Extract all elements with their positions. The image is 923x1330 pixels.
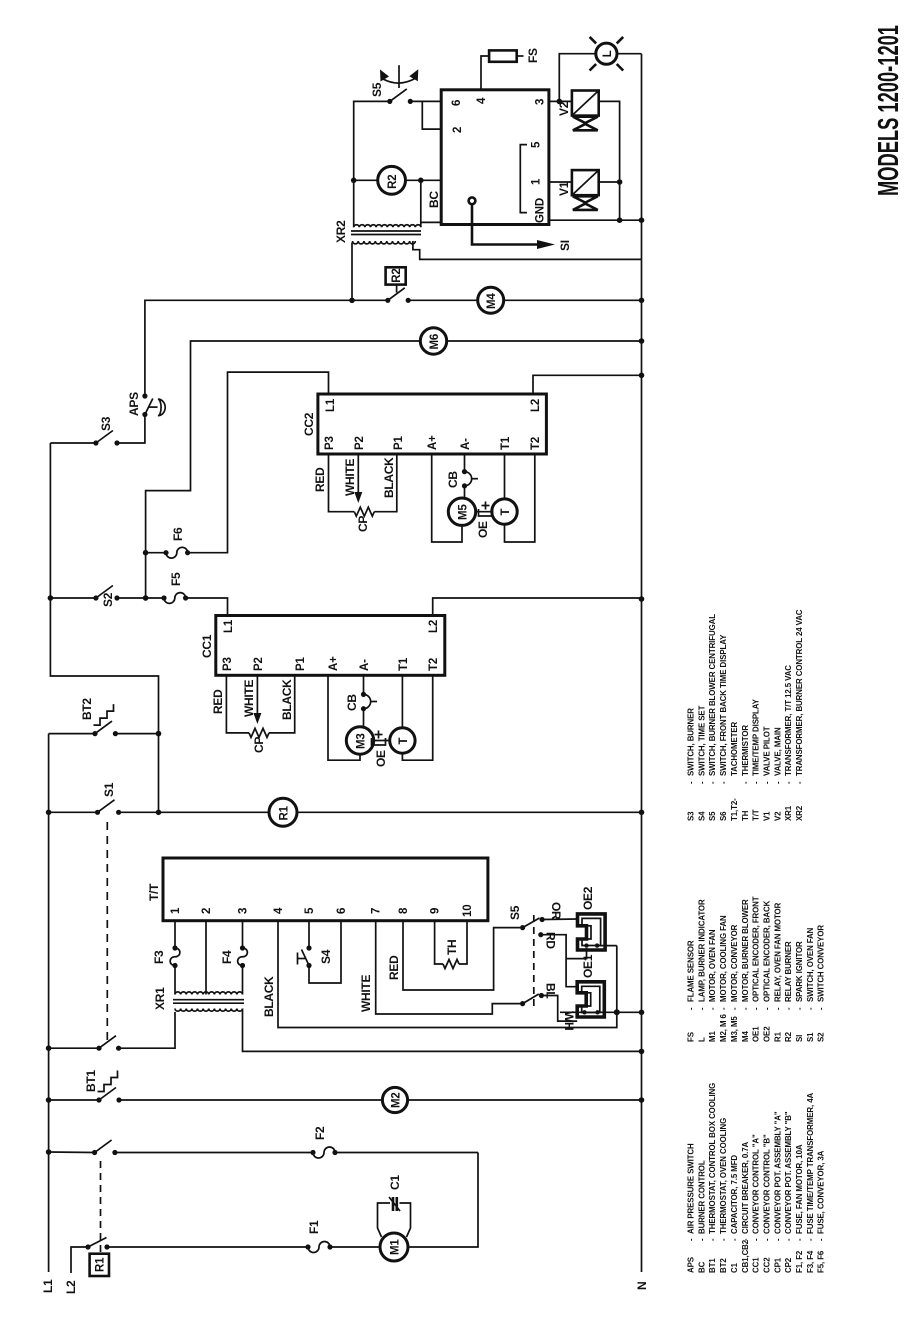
svg-text:R1: R1 — [95, 1257, 107, 1272]
svg-text:T1,T2-TACHOMETER: T1,T2-TACHOMETER — [730, 722, 739, 821]
svg-text:CC2: CC2 — [302, 412, 316, 436]
svg-text:WHITE: WHITE — [343, 459, 357, 496]
svg-text:WH: WH — [562, 1011, 576, 1030]
burner control BC box — [441, 90, 549, 225]
wire OR to OE2 — [542, 918, 577, 921]
svg-text:F6: F6 — [171, 527, 185, 541]
switch S1b (gang pole of S1) rung from L1 — [46, 1045, 52, 1051]
wire pot to P1 BLACK — [374, 454, 397, 512]
potentiometer CP2 — [354, 507, 374, 516]
wire F2 down to M1 loop — [335, 1152, 478, 1154]
fuse F2 — [310, 1150, 315, 1155]
fuse F5 — [161, 595, 166, 600]
wire F2 rung from L1 — [46, 1149, 52, 1155]
svg-text:CP2-CONVEYOR POT. ASSEMBLY "B": CP2-CONVEYOR POT. ASSEMBLY "B" — [784, 1111, 793, 1273]
shaft M3 to T — [374, 740, 390, 742]
svg-text:SI: SI — [558, 240, 572, 251]
fuse F1 — [305, 1244, 310, 1249]
wire pin3 out — [549, 100, 572, 102]
svg-text:T2: T2 — [428, 658, 440, 671]
wire XR2 secondary feed — [351, 243, 353, 301]
svg-text:RED: RED — [387, 955, 401, 980]
relay coil R2 — [354, 179, 378, 181]
wire XR2 primary top to S5 — [354, 101, 390, 227]
thermostat BT2 rung — [49, 733, 95, 735]
svg-text:WHITE: WHITE — [242, 680, 256, 717]
wire T1 to T — [504, 454, 506, 499]
svg-text:SI-SPARK IGNITOR: SI-SPARK IGNITOR — [795, 941, 804, 1042]
wire spark ignitor SI — [472, 204, 540, 244]
wire F1 to M1 — [330, 1246, 380, 1248]
circuit breaker CB1 — [363, 675, 365, 694]
wire V2 to common — [599, 101, 620, 182]
svg-text:CC2-CONVEYOR CONTROL "B": CC2-CONVEYOR CONTROL "B" — [763, 1134, 772, 1273]
wire N bus — [641, 54, 643, 1272]
svg-text:CB: CB — [345, 694, 359, 711]
svg-text:V2-VALVE, MAIN: V2-VALVE, MAIN — [773, 727, 782, 821]
svg-text:GND: GND — [535, 198, 547, 223]
wire pin1 to F3 — [174, 921, 176, 948]
shaft M5 to T — [476, 511, 492, 513]
svg-text:F5, F6-FUSE, CONVEYOR, 3A: F5, F6-FUSE, CONVEYOR, 3A — [817, 1150, 826, 1273]
svg-text:APS: APS — [127, 392, 141, 416]
svg-text:L2: L2 — [428, 620, 440, 633]
svg-text:7: 7 — [371, 908, 383, 914]
relay contact R1 pole2 — [92, 1150, 97, 1155]
ground electrode circle — [469, 197, 476, 204]
wire pin2 to XR1 tap — [205, 921, 207, 995]
motor M3 — [346, 727, 373, 754]
svg-text:OE2: OE2 — [581, 886, 595, 910]
wire BL to OE1 top left — [541, 996, 577, 1022]
wire pin4 BLACK — [278, 921, 617, 1028]
svg-text:V1: V1 — [557, 181, 571, 196]
svg-text:T2: T2 — [530, 437, 542, 450]
wire pin8 RED — [403, 921, 520, 990]
wire M1 to corner — [408, 1153, 478, 1248]
wire S1b to XR1 secondary top — [119, 1012, 175, 1048]
svg-text:S2-SWITCH CONVEYOR: S2-SWITCH CONVEYOR — [817, 925, 826, 1042]
wire lamp branch — [559, 54, 596, 102]
svg-text:BLACK: BLACK — [280, 679, 294, 720]
wire V1 to common — [599, 181, 620, 183]
wire R2 contact to M4 — [408, 299, 478, 301]
svg-text:F4: F4 — [220, 950, 234, 964]
motor M2 — [382, 1087, 407, 1112]
circuit breaker CB2 — [464, 454, 466, 472]
svg-text:5: 5 — [531, 141, 543, 148]
svg-text:M4: M4 — [486, 293, 498, 309]
wire OE2 branch to RD run — [566, 948, 586, 959]
wire M6 branch — [146, 341, 421, 553]
svg-text:S1: S1 — [102, 782, 116, 797]
motor M6 — [420, 328, 446, 354]
svg-text:3: 3 — [238, 908, 250, 914]
wire P2 WHITE wiper arrow — [357, 454, 359, 495]
wire R1 coil to N — [297, 811, 642, 813]
wire BC neutral column — [549, 219, 642, 221]
wire P3 RED to pot — [329, 454, 355, 512]
svg-text:M1-MOTOR, OVEN FAN: M1-MOTOR, OVEN FAN — [708, 929, 717, 1042]
wire R2 coil to BC box — [406, 179, 442, 181]
wire APS to M4 rung — [145, 300, 388, 396]
svg-text:F2: F2 — [313, 1126, 327, 1140]
fuse F4 — [240, 945, 245, 950]
motor M4 — [478, 287, 504, 313]
svg-text:FS-FLAME SENSOR: FS-FLAME SENSOR — [687, 940, 696, 1042]
svg-text:BLACK: BLACK — [262, 976, 276, 1017]
svg-text:4: 4 — [273, 907, 285, 914]
wire switched-L1 riser — [50, 443, 158, 812]
svg-text:P1: P1 — [295, 657, 307, 671]
svg-text:M3: M3 — [356, 733, 368, 749]
svg-text:CC1-CONVEYOR CONTROL "A": CC1-CONVEYOR CONTROL "A" — [752, 1134, 761, 1273]
svg-text:L: L — [602, 50, 614, 57]
svg-text:P2: P2 — [253, 657, 265, 671]
wire S5 to BC pins 6 and 2 — [410, 100, 441, 102]
wire F5 to CC1 L1 — [186, 598, 228, 614]
svg-text:BT2: BT2 — [80, 698, 94, 720]
svg-text:F1, F2-FUSE, FAN MOTOR, 10A: F1, F2-FUSE, FAN MOTOR, 10A — [795, 1144, 804, 1273]
relay contact R1 pole1 (in L2) — [85, 1244, 90, 1249]
conveyor control CC1 box — [216, 616, 445, 676]
svg-text:BT1-THERMOSTAT, CONTROL BOX CO: BT1-THERMOSTAT, CONTROL BOX COOLING — [708, 1083, 717, 1273]
wire S2 to F5 junction — [117, 597, 164, 599]
svg-text:BT2-THERMOSTAT, OVEN COOLING: BT2-THERMOSTAT, OVEN COOLING — [719, 1118, 728, 1273]
svg-text:2: 2 — [201, 908, 213, 914]
svg-text:A-: A- — [359, 659, 371, 671]
svg-text:M6: M6 — [429, 334, 441, 350]
svg-text:MODELS 1200-1201: MODELS 1200-1201 — [873, 25, 905, 196]
svg-text:F5: F5 — [169, 572, 183, 586]
svg-text:10: 10 — [462, 905, 474, 917]
wire T2 to T — [402, 675, 432, 760]
svg-text:XR2: XR2 — [334, 220, 348, 243]
relay coil R1 — [269, 798, 297, 826]
svg-text:P3: P3 — [324, 436, 336, 450]
svg-text:A+: A+ — [328, 656, 340, 671]
svg-text:T/T: T/T — [147, 883, 161, 901]
svg-text:M4-MOTOR, BURNER BLOWER: M4-MOTOR, BURNER BLOWER — [741, 899, 750, 1042]
wire R2 dot to XR2 primary bottom — [420, 180, 422, 227]
wire R1 gang dashed link — [100, 1159, 102, 1252]
wire S4 to pin6 — [309, 921, 341, 983]
wire M6 to N — [447, 340, 642, 342]
svg-text:T: T — [500, 509, 512, 516]
svg-text:L1: L1 — [223, 619, 235, 633]
svg-text:TH-THERMISTOR: TH-THERMISTOR — [741, 725, 750, 821]
svg-text:APS-AIR PRESSURE SWITCH: APS-AIR PRESSURE SWITCH — [687, 1143, 696, 1273]
wire T2 to T — [505, 454, 535, 542]
svg-text:T1: T1 — [500, 436, 512, 450]
svg-text:CP: CP — [356, 516, 370, 532]
svg-text:A-: A- — [460, 438, 472, 450]
svg-text:CP1-CONVEYOR POT. ASSEMBLY "A": CP1-CONVEYOR POT. ASSEMBLY "A" — [773, 1111, 782, 1273]
relay R1 box label — [90, 1254, 109, 1276]
svg-text:S5-SWITCH, BURNER BLOWER CENTR: S5-SWITCH, BURNER BLOWER CENTRIFUGAL — [708, 614, 717, 821]
svg-text:F3: F3 — [152, 950, 166, 964]
svg-text:XR2-TRANSFORMER, BURNER CONTRO: XR2-TRANSFORMER, BURNER CONTROL 24 VAC — [795, 609, 804, 821]
wire pin5 to S4 — [308, 921, 310, 948]
svg-text:1: 1 — [170, 907, 182, 914]
thermostat BT1 — [96, 1097, 101, 1102]
optical encoder OE2 — [578, 914, 606, 950]
wire M4 to N — [504, 299, 642, 301]
wire pot to P1 BLACK — [269, 675, 295, 733]
wire pin4 to FS — [481, 56, 489, 90]
svg-text:BC-BURNER CONTROL: BC-BURNER CONTROL — [697, 1160, 706, 1273]
wire CB to M3 — [363, 709, 365, 727]
svg-text:P1: P1 — [393, 436, 405, 450]
wire CB to M5 — [464, 486, 466, 498]
wire OE2 leg down to common — [597, 945, 617, 947]
wire RD from centre contact to OE1 — [541, 935, 577, 987]
switch S1 rung from L1 — [46, 810, 52, 816]
svg-text:R1: R1 — [279, 805, 291, 820]
svg-text:TH: TH — [445, 940, 459, 955]
motor M1 — [380, 1233, 408, 1261]
wire pin1 out — [549, 181, 572, 183]
valve V1 pilot — [572, 170, 599, 195]
svg-text:RED: RED — [211, 689, 225, 714]
thermistor TH loop pins 9-10 — [435, 921, 443, 964]
wire T1 to T — [401, 675, 403, 728]
relay contact R2 — [385, 298, 390, 303]
svg-text:S6-SWITCH, FRONT BACK TIME DI: S6-SWITCH, FRONT BACK TIME DISPLAY — [719, 634, 728, 821]
wire valve common to N column — [619, 182, 621, 220]
tachometer T (CC2) — [492, 499, 517, 524]
svg-text:S4-SWITCH, TIME SET: S4-SWITCH, TIME SET — [697, 705, 706, 821]
svg-text:CB1,CB2-CIRCUIT BREAKER, 0.7A: CB1,CB2-CIRCUIT BREAKER, 0.7A — [741, 1141, 750, 1273]
junction dots on N — [639, 1097, 645, 1103]
svg-text:S5: S5 — [508, 905, 522, 920]
potentiometer CP1 — [249, 728, 269, 737]
svg-text:A+: A+ — [427, 435, 439, 450]
svg-text:P2: P2 — [354, 436, 366, 450]
svg-text:P3: P3 — [222, 657, 234, 671]
svg-text:T/T-TIME/TEMP DISPLAY: T/T-TIME/TEMP DISPLAY — [752, 698, 761, 821]
wire WH common — [520, 1003, 523, 1005]
wire CC2 L2 to N — [533, 375, 642, 394]
svg-text:1: 1 — [531, 178, 543, 185]
svg-text:BLACK: BLACK — [382, 457, 396, 498]
svg-text:BC: BC — [427, 191, 441, 208]
svg-text:R1-RELAY, OVEN FAN MOTOR: R1-RELAY, OVEN FAN MOTOR — [773, 902, 782, 1042]
svg-text:L2: L2 — [64, 1280, 78, 1294]
wire CC1 L2 to N — [433, 598, 642, 614]
svg-text:3: 3 — [535, 99, 547, 105]
svg-text:R2-RELAY BURNER: R2-RELAY BURNER — [784, 941, 793, 1042]
svg-text:FS: FS — [526, 48, 540, 63]
wire S5 gang dashed link — [533, 914, 535, 1006]
fuse F3 — [172, 945, 177, 950]
svg-text:N: N — [635, 1282, 649, 1290]
capacitor C1 loop — [378, 1203, 391, 1237]
svg-text:BT1: BT1 — [84, 1070, 98, 1092]
wire P2 WHITE wiper arrow — [256, 675, 258, 716]
svg-text:M1: M1 — [390, 1239, 402, 1255]
optical encoder OE1 — [577, 982, 604, 1017]
lamp L burner indicator — [596, 43, 617, 64]
svg-text:T1: T1 — [398, 657, 410, 671]
svg-text:5: 5 — [304, 907, 316, 914]
svg-text:OR: OR — [549, 902, 563, 920]
svg-text:V2: V2 — [557, 101, 571, 116]
svg-text:F1: F1 — [307, 1220, 321, 1234]
air pressure switch APS — [142, 412, 147, 417]
motor M5 — [448, 498, 475, 525]
svg-text:S5: S5 — [370, 82, 384, 97]
svg-text:M5: M5 — [458, 504, 470, 520]
wire lamp to N — [617, 53, 642, 55]
svg-text:CC1: CC1 — [200, 634, 214, 658]
svg-text:R2: R2 — [387, 174, 399, 188]
wire BT1 rung — [46, 1097, 52, 1103]
svg-text:R2: R2 — [391, 268, 403, 282]
wire F6 to CC2 L1 — [188, 372, 329, 553]
wire pin7 WHITE — [376, 921, 520, 1014]
svg-text:OE2-OPTICAL ENCODER, BACK: OE2-OPTICAL ENCODER, BACK — [763, 900, 772, 1042]
wire L2 entry — [71, 1247, 88, 1273]
svg-text:V1-VALVE PILOT: V1-VALVE PILOT — [763, 726, 772, 821]
svg-text:OE1-OPTICAL ENCODER, FRONT: OE1-OPTICAL ENCODER, FRONT — [752, 896, 761, 1042]
wire branch to F6 — [145, 553, 147, 598]
svg-text:C1-CAPACITOR, 7.5 MFD: C1-CAPACITOR, 7.5 MFD — [730, 1155, 739, 1273]
svg-text:WHITE: WHITE — [359, 975, 373, 1012]
svg-text:L1: L1 — [41, 1279, 55, 1293]
svg-text:XR1: XR1 — [153, 987, 167, 1010]
wire A+ to M5 — [432, 454, 462, 542]
switch S5 centrifugal — [387, 99, 392, 104]
wire BT2 to S1-line — [115, 733, 158, 735]
svg-text:RD: RD — [544, 932, 558, 949]
wire L2 leg down to F1 — [107, 1246, 308, 1248]
wire XR2 secondary bottom to N — [413, 241, 642, 259]
switch S2 rung — [48, 595, 54, 601]
svg-text:L1: L1 — [325, 398, 337, 412]
encoder disc OE (CC2) — [479, 509, 493, 516]
svg-text:2: 2 — [452, 127, 464, 133]
wire pin3 to F4 — [242, 921, 244, 948]
svg-text:XR1-TRANSFORMER, T/T 12.5 VAC: XR1-TRANSFORMER, T/T 12.5 VAC — [784, 665, 793, 821]
svg-text:L2: L2 — [530, 399, 542, 412]
svg-text:M3, M5-MOTOR, CONVEYOR: M3, M5-MOTOR, CONVEYOR — [730, 924, 739, 1042]
wire P3 RED to pot — [226, 675, 249, 733]
svg-text:RED: RED — [313, 467, 327, 492]
svg-text:9: 9 — [430, 908, 442, 914]
jumper 5 to GND — [520, 145, 527, 213]
flame sensor FS — [489, 50, 517, 61]
svg-text:S4: S4 — [319, 949, 333, 964]
svg-text:CP: CP — [252, 737, 266, 753]
svg-text:M2, M 6-MOTOR, COOLING FAN: M2, M 6-MOTOR, COOLING FAN — [719, 915, 728, 1042]
wire F3 to XR1 primary — [174, 966, 176, 995]
wire XR1 secondary bottom to N — [243, 1009, 642, 1052]
svg-text:S1-SWITCH, OVEN FAN: S1-SWITCH, OVEN FAN — [806, 927, 815, 1042]
svg-text:S2: S2 — [101, 592, 115, 607]
svg-text:OE: OE — [374, 750, 388, 767]
svg-text:CB: CB — [446, 471, 460, 488]
wire S1 to R1 coil — [119, 811, 269, 813]
svg-text:4: 4 — [476, 97, 488, 104]
wire M2 to N — [408, 1099, 642, 1101]
svg-text:6: 6 — [451, 100, 463, 106]
valve V2 main — [572, 91, 599, 116]
svg-text:F3, F4-FUSE TIME/TEMP TRANSFOR: F3, F4-FUSE TIME/TEMP TRANSFORMER, 4A — [806, 1093, 815, 1273]
svg-text:M2: M2 — [391, 1092, 403, 1108]
svg-text:C1: C1 — [388, 1175, 402, 1190]
svg-text:OE: OE — [476, 521, 490, 538]
svg-text:S3: S3 — [99, 416, 113, 431]
wire F4 to XR1 primary — [242, 966, 244, 995]
svg-text:OE1: OE1 — [581, 954, 595, 978]
svg-text:T: T — [398, 738, 410, 745]
svg-text:S3-SWITCH, BURNER: S3-SWITCH, BURNER — [687, 708, 696, 821]
wire L1 bus — [48, 734, 50, 1272]
fuse F6 — [146, 552, 166, 554]
svg-text:L-LAMP, BURNER INDICATOR: L-LAMP, BURNER INDICATOR — [697, 899, 706, 1042]
wire A+ to M3 — [328, 675, 360, 760]
svg-text:6: 6 — [336, 908, 348, 914]
T/T time-temp display box — [163, 858, 488, 921]
wire pole2 to F2 — [115, 1152, 313, 1154]
switch S4 — [306, 945, 311, 950]
conveyor control CC2 box — [318, 394, 547, 454]
switch S3 rung — [50, 442, 96, 444]
wire S3 to APS — [117, 415, 145, 444]
svg-text:8: 8 — [398, 907, 410, 914]
tachometer T (CC1) — [390, 728, 415, 753]
encoder disc OE (CC1) — [372, 738, 386, 745]
wire S1 gang dashed link — [106, 818, 108, 1040]
wire BT1 to M2 — [119, 1099, 383, 1101]
